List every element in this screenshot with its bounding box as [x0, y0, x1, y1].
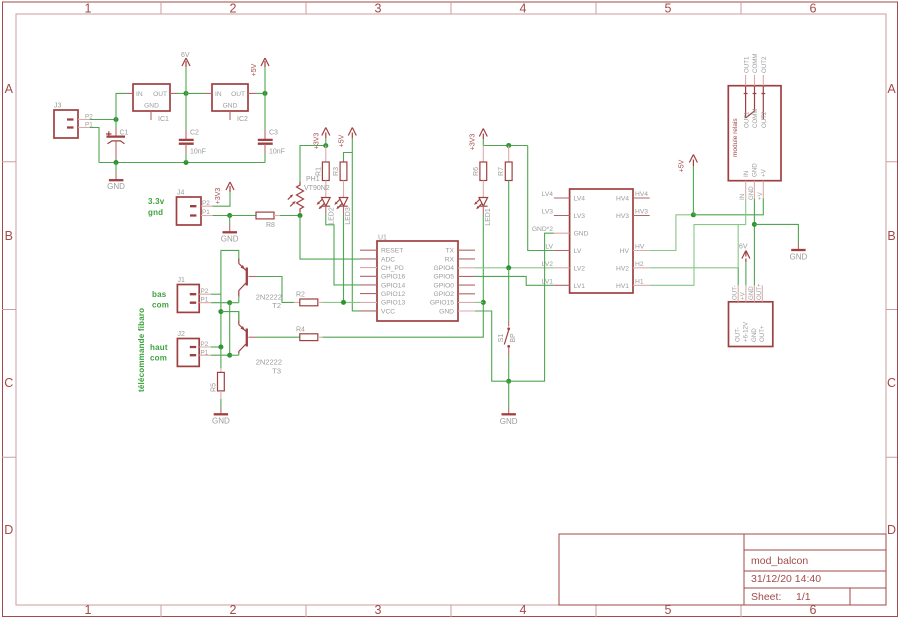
svg-text:R5: R5 — [211, 383, 218, 392]
node junction J2.P2 — [218, 345, 223, 350]
svg-text:+5V: +5V — [251, 63, 258, 76]
lower power module — [729, 283, 773, 347]
wire T3 emitter lead — [238, 312, 240, 321]
svg-text:GND: GND — [748, 286, 755, 300]
voltage regulator IC2 — [205, 84, 256, 123]
node junction at C1 top — [114, 117, 119, 122]
svg-text:télécommande fibaro: télécommande fibaro — [137, 308, 146, 392]
svg-text:GND: GND — [223, 103, 238, 110]
svg-text:4: 4 — [520, 2, 527, 16]
wire IC1 OUT to node — [177, 92, 186, 94]
svg-text:BP: BP — [510, 333, 517, 343]
svg-text:1: 1 — [85, 603, 92, 617]
supply +3V3 arrow (right) — [470, 129, 488, 151]
svg-text:P2: P2 — [201, 288, 209, 295]
svg-text:IN: IN — [215, 91, 222, 98]
wire H2 to relay area (pale) — [650, 225, 739, 268]
resistor R7 (vertical) — [498, 146, 512, 181]
supply 6V arrow — [181, 52, 190, 93]
svg-text:com: com — [152, 301, 169, 310]
wire LED2 to U1 GPIO14 — [326, 214, 360, 285]
svg-text:C2: C2 — [190, 130, 199, 137]
wire H2 node down to OUT- — [737, 268, 739, 286]
wire R8 to node — [280, 215, 300, 217]
node junction GPIO15/LED1/R4 — [481, 300, 486, 305]
connector J2 — [177, 331, 211, 366]
svg-text:GND: GND — [752, 163, 759, 177]
svg-text:OUT: OUT — [231, 91, 245, 98]
svg-text:A: A — [887, 82, 896, 96]
svg-text:R1: R1 — [316, 167, 323, 176]
wire GPIO5 to LV1 — [475, 276, 554, 285]
wire relay GND down — [753, 199, 755, 286]
svg-text:TX: TX — [445, 248, 454, 255]
relay contact symbol — [744, 86, 766, 120]
wire T3 emitter loop — [221, 312, 239, 321]
resistor R8 — [256, 212, 280, 229]
svg-text:3.3v: 3.3v — [148, 197, 165, 206]
frame column ticks top — [161, 2, 741, 14]
svg-text:OUT+: OUT+ — [759, 325, 766, 342]
svg-text:OUT: OUT — [153, 91, 167, 98]
svg-text:P1: P1 — [201, 349, 209, 356]
svg-text:C: C — [4, 376, 13, 390]
svg-text:GND: GND — [500, 417, 518, 426]
node junction R7 top — [506, 143, 511, 148]
svg-text:GPIO4: GPIO4 — [434, 265, 455, 272]
svg-text:HV: HV — [635, 244, 645, 251]
svg-text:+V: +V — [739, 291, 746, 300]
resistor R2 — [294, 292, 323, 306]
svg-text:+3V3: +3V3 — [470, 134, 477, 151]
svg-text:6V: 6V — [739, 244, 748, 251]
capacitor C3 — [258, 93, 285, 162]
svg-text:J2: J2 — [178, 331, 186, 338]
ground symbol GND (R5) — [212, 399, 230, 426]
supply +5V arrow (mid) — [339, 128, 357, 153]
wire +3V3 rail to PH1 top — [300, 146, 326, 183]
wire node to R8 — [230, 215, 256, 217]
wire J3.P1 down to ground rail — [90, 128, 99, 163]
svg-text:GND*2: GND*2 — [532, 226, 553, 233]
svg-text:R3: R3 — [333, 167, 340, 176]
supply +3V3 arrow (mid) — [314, 128, 330, 150]
relay bottom pin stubs — [746, 181, 764, 199]
connector J4 — [177, 190, 213, 226]
svg-text:U1: U1 — [378, 235, 387, 242]
svg-text:R8: R8 — [266, 222, 275, 229]
svg-text:A: A — [5, 82, 14, 96]
svg-text:P1: P1 — [202, 209, 210, 216]
node junction IC1 out — [184, 91, 189, 96]
frame row letters left — [4, 82, 13, 537]
ground symbol GND (power) — [107, 163, 125, 191]
node junction relay GND — [752, 222, 757, 227]
supply +5V arrow (relay) — [679, 155, 698, 215]
svg-text:P2: P2 — [202, 200, 210, 207]
wire GPIO4 row to LV2 (pale) — [475, 267, 554, 269]
svg-text:6: 6 — [810, 2, 817, 16]
resistor R1 (vertical) — [316, 146, 330, 198]
svg-text:+V: +V — [757, 191, 764, 200]
svg-text:LV: LV — [545, 244, 553, 251]
frame column numbers bottom — [85, 603, 817, 617]
node junction +3V3 mid — [323, 143, 328, 148]
svg-text:GND: GND — [107, 182, 125, 191]
svg-text:HV2: HV2 — [616, 265, 629, 272]
relay module — [728, 75, 781, 199]
svg-text:D: D — [887, 523, 896, 537]
wire +5V node to relay +V — [693, 199, 763, 215]
svg-text:T2: T2 — [272, 301, 281, 310]
voltage regulator IC1 — [127, 84, 177, 123]
svg-text:GPIO5: GPIO5 — [434, 274, 455, 281]
svg-text:10nF: 10nF — [269, 149, 285, 156]
ground symbol GND (J4) — [221, 216, 239, 244]
svg-text:+5V: +5V — [679, 159, 686, 172]
svg-text:GPIO2: GPIO2 — [434, 291, 455, 298]
svg-text:C: C — [887, 376, 896, 390]
wire J3.P2 to node — [90, 119, 116, 121]
resistor R3 (vertical) — [333, 160, 347, 198]
svg-text:LV2: LV2 — [542, 261, 554, 268]
capacitor C1 (polarized) — [106, 120, 129, 163]
wire LED3 down to R2 net — [343, 214, 345, 302]
node junction J1.P1 — [227, 300, 232, 305]
wire node to T2 collector — [230, 302, 239, 304]
svg-text:CH_PD: CH_PD — [381, 265, 404, 272]
node junction +5V — [691, 212, 696, 217]
wire T3 base to R4 — [256, 336, 299, 338]
node junction rail C1 — [114, 160, 119, 165]
node junction LED3/R2 — [341, 300, 346, 305]
module U1 — [360, 235, 475, 322]
svg-text:HV4: HV4 — [616, 196, 629, 203]
svg-text:LV3: LV3 — [542, 209, 554, 216]
level shifter module — [554, 189, 650, 293]
frame row letters right — [887, 82, 896, 537]
svg-text:OUT1: OUT1 — [743, 111, 750, 128]
transistor T3 2N2222 — [239, 321, 282, 376]
wire node up to IC1 IN — [116, 93, 127, 119]
frame column numbers top — [85, 2, 817, 16]
svg-text:6V: 6V — [181, 52, 190, 59]
U1 left pin stubs — [360, 250, 377, 311]
wire LED1 down to GPIO15 node — [482, 214, 484, 302]
svg-text:LV2: LV2 — [574, 265, 586, 272]
level shifter left pin stubs — [554, 198, 570, 285]
svg-text:GND: GND — [751, 328, 758, 342]
svg-text:C1: C1 — [120, 130, 129, 137]
node junction GND bottom — [506, 379, 511, 384]
wire rail down to LV — [528, 146, 554, 251]
svg-text:PH1: PH1 — [306, 176, 320, 183]
svg-text:mod_balcon: mod_balcon — [751, 555, 808, 567]
svg-text:2N2222: 2N2222 — [256, 358, 282, 367]
svg-text:IN: IN — [739, 194, 746, 200]
svg-text:P2: P2 — [201, 341, 209, 348]
svg-text:1: 1 — [85, 2, 92, 16]
svg-text:LV3: LV3 — [574, 213, 586, 220]
wire GPIO15 pin to node (pale) — [475, 301, 483, 303]
wire J2.P1 to node — [211, 354, 230, 356]
node junction rail C2 — [184, 160, 189, 165]
svg-text:GPIO12: GPIO12 — [381, 291, 405, 298]
wire +5V down to U1 VCC — [352, 153, 360, 311]
svg-text:1/1: 1/1 — [796, 591, 811, 603]
wire R4 to LED1/GPIO15 net — [323, 302, 484, 337]
svg-text:J3: J3 — [54, 103, 62, 110]
svg-text:+6-12V: +6-12V — [742, 321, 749, 342]
svg-text:B: B — [887, 229, 895, 243]
svg-text:LV1: LV1 — [574, 283, 586, 290]
wire node down and to U1 ADC — [300, 216, 360, 260]
svg-text:+3V3: +3V3 — [314, 133, 321, 150]
svg-text:R7: R7 — [498, 167, 505, 176]
svg-text:GND: GND — [790, 253, 808, 262]
switch S1 — [498, 268, 517, 356]
svg-text:LV4: LV4 — [574, 196, 586, 203]
frame row ticks left — [2, 162, 16, 458]
level shifter right pin stubs — [633, 198, 650, 216]
svg-text:gnd: gnd — [148, 208, 163, 217]
svg-text:C3: C3 — [269, 130, 278, 137]
svg-text:+5V: +5V — [339, 134, 346, 147]
svg-text:LED3: LED3 — [345, 207, 352, 225]
ground symbol GND (relay) — [790, 243, 808, 262]
supply 6V arrow (lower) — [739, 244, 750, 286]
svg-text:2: 2 — [230, 603, 237, 617]
wire J1.P1 to node — [211, 302, 230, 304]
svg-text:GPIO0: GPIO0 — [434, 282, 455, 289]
wire node to T3 collector — [230, 354, 239, 356]
svg-text:GND: GND — [221, 234, 239, 243]
relay bottom outside labels IN GND +V — [739, 186, 764, 200]
svg-text:GND: GND — [144, 103, 159, 110]
vertical wire J1.P1 to J2.P1 — [229, 303, 231, 356]
svg-text:5: 5 — [665, 2, 672, 16]
svg-text:R4: R4 — [296, 327, 305, 334]
svg-text:GPIO14: GPIO14 — [381, 282, 405, 289]
svg-text:T3: T3 — [272, 367, 281, 376]
relay top labels OUT1 COMM OUT2 — [743, 53, 768, 73]
supply +3V3 arrow (J4) — [215, 182, 234, 204]
svg-text:HV: HV — [620, 248, 630, 255]
LED1 — [474, 198, 492, 226]
svg-text:GND: GND — [574, 231, 589, 238]
relay internal labels OUT1 COMM OUT2 — [743, 108, 768, 128]
resistor R5 (vertical) — [211, 347, 225, 399]
wire T2 emitter loop to left rail — [221, 250, 239, 347]
svg-text:S1: S1 — [498, 334, 505, 343]
svg-text:GPIO13: GPIO13 — [381, 300, 405, 307]
svg-text:RX: RX — [445, 256, 455, 263]
svg-text:Sheet:: Sheet: — [751, 591, 781, 603]
svg-text:GND: GND — [439, 308, 454, 315]
svg-text:OUT-: OUT- — [735, 327, 742, 342]
frame row ticks right — [886, 162, 897, 458]
wire J1.P2 to emitter rail — [211, 293, 221, 295]
svg-text:10nF: 10nF — [190, 149, 206, 156]
svg-text:31/12/20 14:40: 31/12/20 14:40 — [751, 573, 821, 585]
frame column ticks bottom — [161, 605, 741, 617]
LED3 — [334, 198, 352, 225]
wire R7 down to GPIO4 net — [508, 181, 510, 268]
resistor R4 — [296, 327, 323, 341]
connector J1 — [177, 277, 211, 312]
svg-text:B: B — [5, 229, 13, 243]
svg-text:OUT-: OUT- — [732, 285, 739, 300]
wire R2 to U1 GPIO13 (pale) — [323, 301, 361, 303]
svg-text:D: D — [4, 523, 13, 537]
wire S1 down to GND node — [508, 356, 510, 382]
svg-text:RESET: RESET — [381, 248, 403, 255]
node junction T3 emitter rail — [218, 309, 223, 314]
node junction IC2 out — [263, 91, 268, 96]
svg-text:IN: IN — [743, 171, 750, 177]
wire GND node to ground symbol — [754, 224, 798, 243]
svg-text:3: 3 — [375, 603, 382, 617]
svg-text:LED1: LED1 — [485, 208, 492, 226]
svg-text:COMM: COMM — [752, 53, 759, 73]
svg-text:VCC: VCC — [381, 308, 395, 315]
svg-text:bas: bas — [152, 290, 167, 299]
svg-text:OUT+: OUT+ — [756, 283, 763, 300]
transistor T2 2N2222 — [239, 259, 282, 311]
svg-text:HV4: HV4 — [635, 191, 648, 198]
svg-text:OUT2: OUT2 — [761, 56, 768, 73]
svg-text:H2: H2 — [635, 261, 644, 268]
svg-text:OUT1: OUT1 — [743, 56, 750, 73]
supply +5V arrow top — [251, 58, 269, 93]
svg-text:+V: +V — [761, 168, 768, 177]
svg-text:GND: GND — [748, 186, 755, 200]
svg-text:IN: IN — [136, 91, 143, 98]
wire node to IC2 IN — [186, 92, 205, 94]
wire bottom route to GND*2 — [509, 233, 554, 381]
svg-text:H1: H1 — [635, 278, 644, 285]
ground rail wire — [99, 162, 265, 164]
wire R3 top to +5V line — [344, 153, 353, 161]
photoresistor PH1 — [288, 176, 330, 213]
svg-text:LV: LV — [574, 248, 582, 255]
wire HV to +5V node (pale) — [650, 215, 694, 251]
capacitor C2 — [179, 93, 206, 162]
wire T2 base to R2 net — [256, 277, 294, 303]
node junction J2.P1 — [227, 353, 232, 358]
title block outline — [559, 534, 886, 605]
svg-text:haut: haut — [150, 343, 168, 352]
svg-text:4: 4 — [520, 603, 527, 617]
lower module outside labels — [732, 283, 763, 300]
U1 right pin stubs — [458, 250, 475, 294]
svg-text:R6: R6 — [473, 167, 480, 176]
svg-text:IC1: IC1 — [158, 116, 169, 123]
svg-text:R2: R2 — [296, 292, 305, 299]
wire H1 to relay IN (pale) — [650, 199, 746, 286]
svg-text:HV1: HV1 — [616, 283, 629, 290]
svg-text:GND: GND — [212, 417, 230, 426]
svg-text:IC2: IC2 — [237, 116, 248, 123]
relay top pin stubs — [746, 75, 764, 86]
svg-text:2: 2 — [230, 2, 237, 16]
svg-text:HV3: HV3 — [635, 209, 648, 216]
svg-text:HV3: HV3 — [616, 213, 629, 220]
svg-text:3: 3 — [375, 2, 382, 16]
svg-text:GPIO15: GPIO15 — [430, 300, 454, 307]
lower module pin stubs — [738, 285, 762, 301]
wire J2.P2 to rail — [211, 346, 221, 348]
svg-text:GPIO16: GPIO16 — [381, 274, 405, 281]
svg-text:J4: J4 — [177, 190, 185, 197]
wire IC2 OUT to node — [256, 92, 265, 94]
svg-text:LED2: LED2 — [329, 207, 336, 225]
wire +3V3 rail right — [483, 145, 527, 147]
node junction PH1 bottom — [298, 213, 303, 218]
wire U1 GND to bottom route — [475, 311, 509, 381]
wire J4.P2 to +3V3 — [213, 192, 231, 206]
svg-text:LV4: LV4 — [542, 191, 554, 198]
svg-text:com: com — [150, 354, 167, 363]
svg-text:OUT2: OUT2 — [761, 111, 768, 128]
svg-text:COMM: COMM — [752, 108, 759, 128]
resistor R6 (vertical) — [473, 146, 487, 198]
svg-text:ADC: ADC — [381, 256, 395, 263]
lower module inside labels — [735, 321, 766, 342]
node junction J4.P1 — [227, 213, 232, 218]
svg-text:P1: P1 — [201, 297, 209, 304]
svg-text:module relais: module relais — [732, 118, 739, 157]
wire J4.P1 to node — [213, 215, 230, 217]
LED2 — [317, 198, 336, 225]
relay internal labels IN GND +V — [743, 163, 768, 177]
svg-text:J1: J1 — [178, 277, 186, 284]
node junction GPIO4/R7/S1 — [506, 265, 511, 270]
svg-text:LV1: LV1 — [542, 278, 554, 285]
ground symbol GND (S1) — [500, 381, 518, 426]
connector J3 — [54, 103, 93, 139]
svg-text:+3V3: +3V3 — [215, 188, 222, 205]
